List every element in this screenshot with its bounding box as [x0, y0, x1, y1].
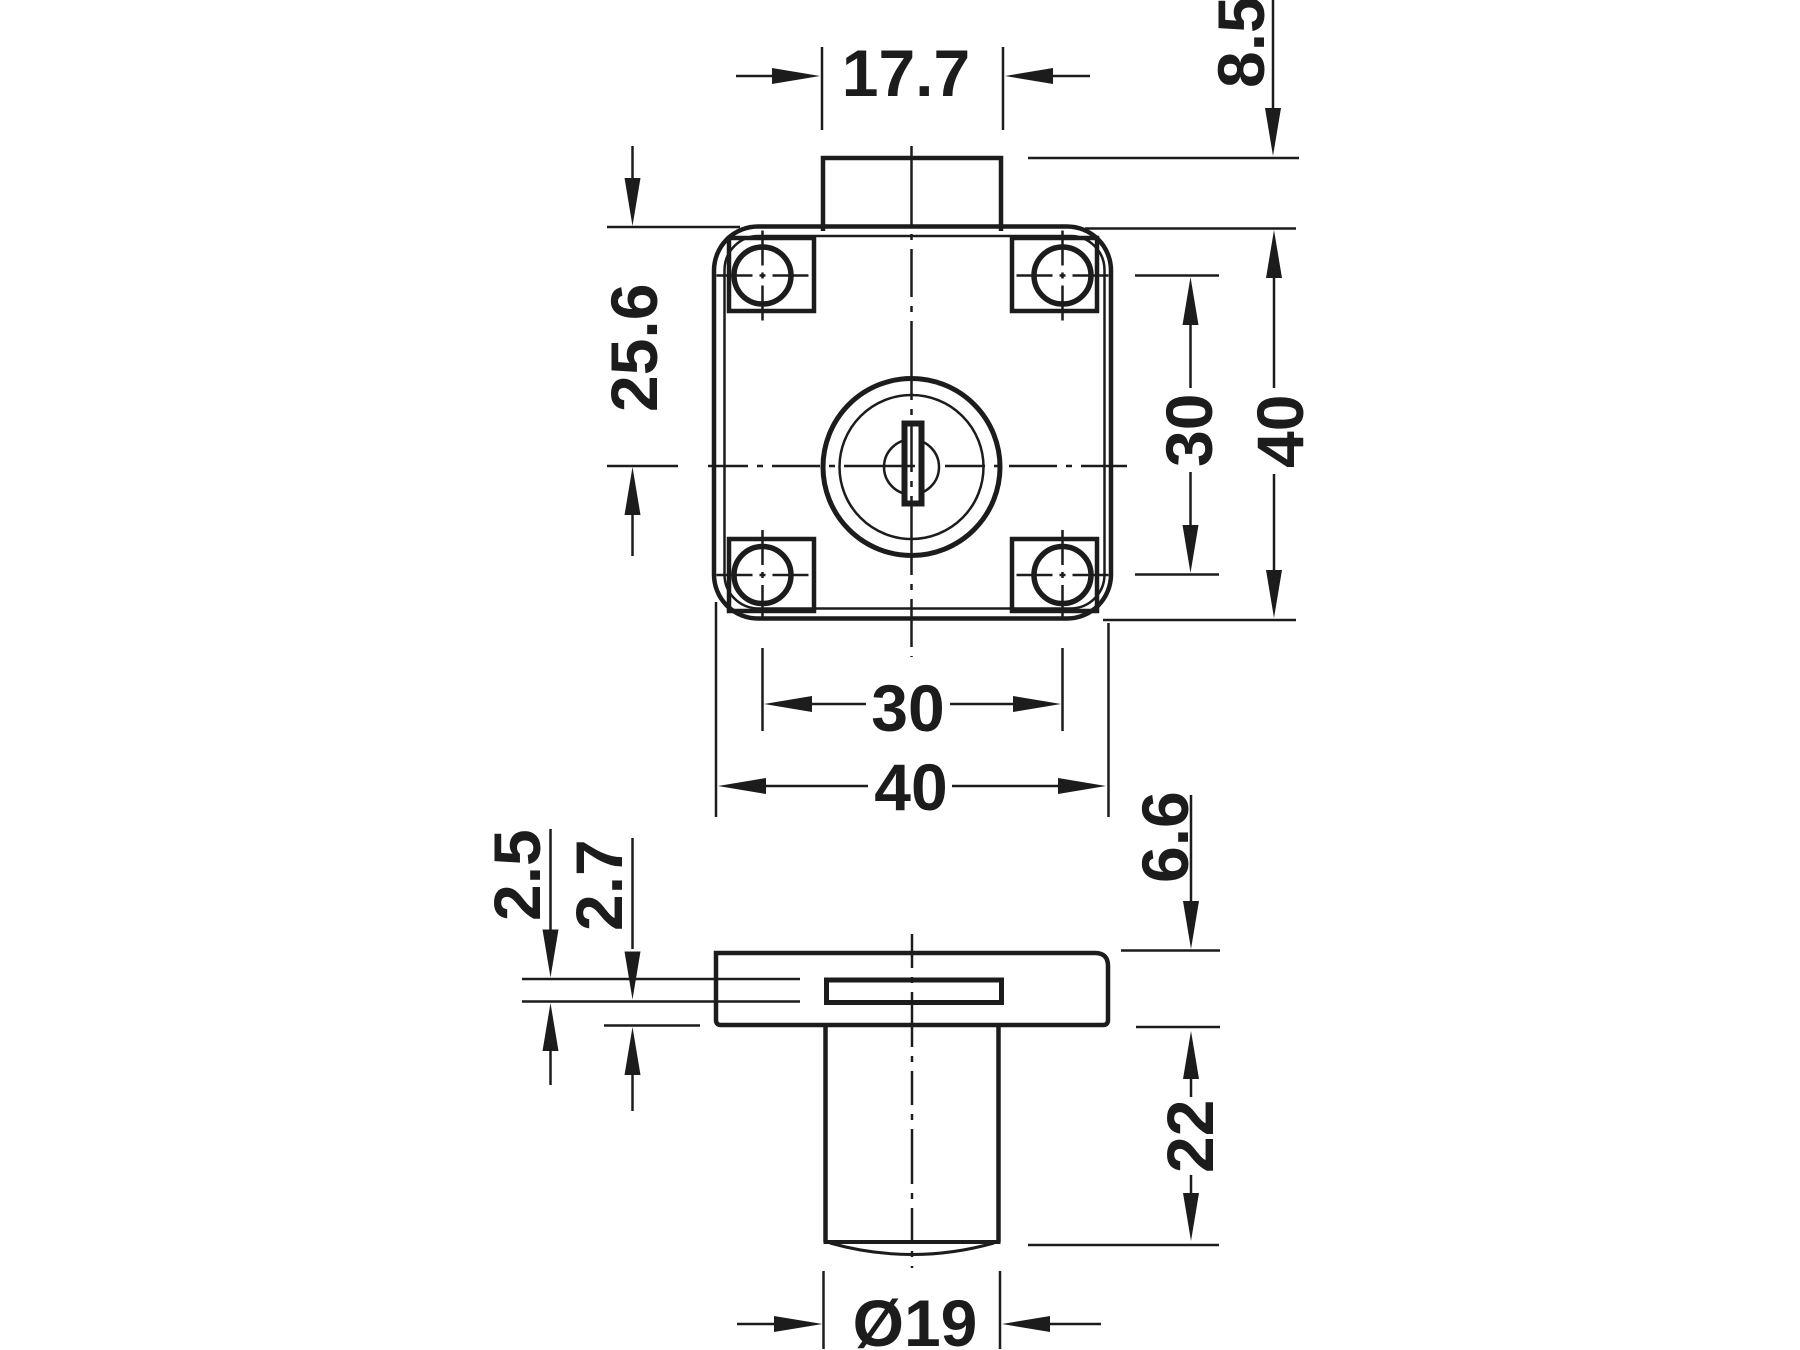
lock body inner outline — [725, 236, 1105, 609]
svg-text:40: 40 — [1243, 395, 1317, 468]
bolt slot (side view) — [827, 980, 1002, 1003]
cylinder outer circle — [823, 379, 1000, 556]
dimension 8.5 extension line (latch top level) — [1028, 157, 1299, 160]
dimension 40 bottom: left extension line — [715, 602, 718, 817]
dimension 40 bottom: right extension line — [1107, 623, 1110, 817]
dimension 22 extension line (cylinder bottom level) — [1028, 1244, 1219, 1247]
svg-text:22: 22 — [1153, 1100, 1227, 1173]
dimension 17.7 right arrow — [1048, 75, 1090, 78]
dimension 2.7 lower arrow — [625, 1027, 641, 1075]
dimension 40 bottom: right arrow — [952, 785, 1060, 788]
dimension 40 right: top arrow — [1266, 230, 1282, 278]
dimension 2.7 line with arrow — [631, 838, 634, 949]
dimension D19 right arrow — [1048, 1323, 1101, 1326]
dimension 40 right: bottom arrow — [1273, 474, 1276, 572]
keyhole slot — [905, 424, 922, 504]
dimension D19 left extension line — [822, 1271, 825, 1349]
dimension 22 bottom arrow — [1190, 1175, 1193, 1193]
screw pocket square bottom-left — [729, 539, 814, 611]
dimension 30 right: top extension line — [1135, 274, 1219, 277]
screw hole circle top-right — [1034, 247, 1091, 304]
slot top extension line (side view) — [522, 978, 800, 981]
dimension 30 bottom: left arrow — [764, 696, 812, 712]
svg-text:2.5: 2.5 — [480, 829, 554, 921]
crosshair top-right hole — [1017, 274, 1109, 277]
dimension 2.5 lower arrow — [543, 1003, 559, 1051]
svg-text:Ø19: Ø19 — [853, 1286, 978, 1350]
cylinder housing right edge (side view) — [996, 1027, 1001, 1242]
slot bottom extension line (side view) — [522, 1000, 800, 1003]
dimension 17.7 extension line right — [1002, 47, 1005, 130]
horizontal centerline top view — [607, 465, 1127, 468]
screw hole circle top-left — [734, 247, 791, 304]
dimension 17.7 extension line left — [821, 47, 824, 130]
crosshair bottom-right hole — [1017, 574, 1109, 577]
latch bolt (top protrusion) — [823, 158, 1001, 231]
dimension 25.6 upper arrow — [631, 146, 634, 182]
svg-text:30: 30 — [871, 671, 944, 745]
svg-text:40: 40 — [874, 750, 947, 824]
screw pocket square top-right — [1012, 238, 1097, 311]
dimension 30 bottom: right arrow — [950, 703, 1014, 706]
dimension 40 right: extension line bottom — [1103, 619, 1296, 622]
dimension 6.6 line with arrow — [1190, 795, 1193, 902]
side view plate — [716, 953, 1108, 1025]
cylinder housing bottom edge (side view) — [824, 1240, 1001, 1244]
svg-text:2.7: 2.7 — [562, 839, 636, 931]
dimension 30 bottom: left extension line — [761, 648, 764, 731]
dimension 2.5 line with arrow — [549, 829, 552, 930]
dimension 25.6 lower arrow — [625, 467, 641, 515]
dimension 6.6 extension line (plate top level) — [1121, 949, 1220, 952]
dimension D19 right extension line — [999, 1271, 1002, 1349]
plate bottom short extension line (side view) — [604, 1024, 700, 1027]
dimension 22 top arrow — [1183, 1031, 1199, 1079]
dimension 8.5 line with arrow — [1272, 0, 1275, 112]
dimension 25.6 upper extension line (body top level) — [607, 226, 740, 229]
crosshair bottom-left hole — [717, 574, 809, 577]
svg-text:6.6: 6.6 — [1128, 791, 1202, 883]
svg-text:17.7: 17.7 — [842, 36, 970, 110]
screw pocket square top-left — [729, 238, 814, 311]
dimension 6.6 / 22 shared extension line (plate bottom level) — [1136, 1026, 1220, 1029]
dimension 17.7 left arrow — [736, 75, 778, 78]
cylinder bottom rounded tip arc — [830, 1243, 994, 1255]
key core circle — [884, 440, 939, 495]
cylinder face circle — [840, 395, 984, 539]
screw hole circle bottom-right — [1034, 547, 1091, 604]
lock body outer outline — [714, 227, 1111, 619]
dimension D19 left arrow — [737, 1323, 777, 1326]
crosshair top-left hole — [717, 274, 809, 277]
dimension 40 bottom: left arrow — [718, 778, 766, 794]
cylinder housing left edge (side view) — [823, 1027, 828, 1242]
screw hole circle bottom-left — [734, 547, 791, 604]
vertical centerline side view — [911, 934, 914, 1268]
svg-text:25.6: 25.6 — [597, 284, 671, 412]
vertical centerline top view — [910, 146, 913, 657]
svg-text:30: 30 — [1152, 394, 1226, 467]
screw pocket square bottom-right — [1012, 539, 1097, 611]
dimension 40 right: extension line top — [1085, 227, 1296, 230]
dimension 30 bottom: right extension line — [1061, 648, 1064, 731]
dimension 30 right: bottom arrow — [1189, 472, 1192, 526]
dimension 30 right: bottom extension line — [1135, 573, 1219, 576]
svg-text:8.5: 8.5 — [1204, 0, 1278, 88]
dimension 30 right: top arrow — [1183, 277, 1199, 325]
